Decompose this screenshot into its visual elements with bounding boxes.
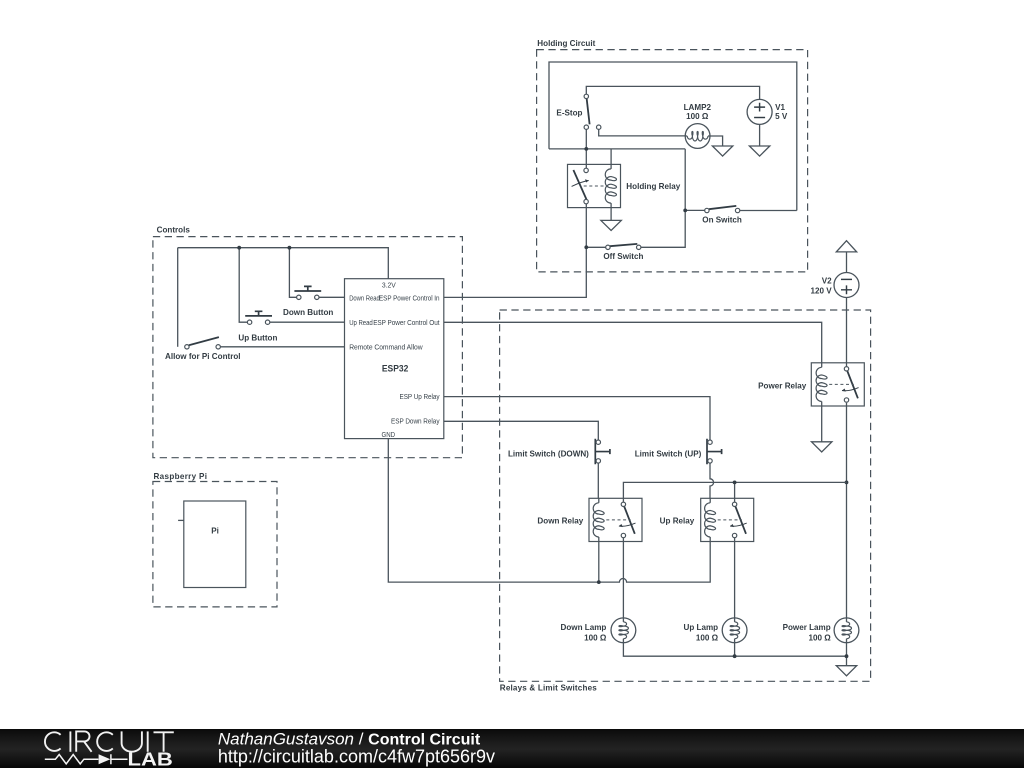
wire arrow to V2 <box>846 252 848 273</box>
wire V2 to power relay switch <box>846 298 848 367</box>
wire off-switch left pin to junction <box>586 246 605 248</box>
wire lamp bottoms rail <box>623 643 846 657</box>
wire ESP Down Relay to limit switch down <box>444 421 599 440</box>
node I (junction) <box>733 654 737 658</box>
pushbutton Limit Switch (UP) <box>635 439 722 465</box>
voltage source V1 (<text x="%s" y="%s" class="lb">5 V</text>) <box>747 99 788 124</box>
svg-text:Down Relay: Down Relay <box>537 517 583 526</box>
svg-text:100 Ω: 100 Ω <box>686 112 709 121</box>
svg-text:120 V: 120 V <box>810 287 832 296</box>
IC U1 ESP32 <box>345 279 444 439</box>
relay K4 (Up Relay) <box>660 498 754 541</box>
svg-text:E-Stop: E-Stop <box>556 108 582 117</box>
wire lamp2 right to ground <box>710 136 723 146</box>
switch Off Switch <box>603 244 643 261</box>
node B (junction) <box>683 209 687 213</box>
svg-text:On Switch: On Switch <box>702 216 742 225</box>
node C (junction) <box>584 245 588 249</box>
node D (junction) <box>237 246 241 250</box>
relay K1 (Holding Relay) <box>568 164 681 207</box>
pushbutton Up Button <box>238 311 277 342</box>
svg-text:3.2V: 3.2V <box>382 281 397 290</box>
relay K3 (Down Relay) <box>537 498 642 541</box>
svg-text:Up Relay: Up Relay <box>660 517 695 526</box>
relay K2 (Power Relay) <box>758 363 864 406</box>
wire node at y149 <box>549 148 685 150</box>
wire power relay coil to ground <box>821 406 823 442</box>
wire junction to up-relay switch <box>734 482 736 501</box>
wire down-relay switch to power net <box>623 482 846 501</box>
wire holding coil to ground <box>610 208 612 221</box>
wire up relay switch to up lamp <box>734 538 736 618</box>
svg-text:Raspberry Pi: Raspberry Pi <box>154 472 208 481</box>
switch Allow for Pi Control <box>165 337 241 361</box>
wire on-switch right pin to loop <box>740 210 797 212</box>
wire down relay coil to gnd rail <box>598 542 600 583</box>
wire relay switch to off-junction <box>585 204 587 248</box>
svg-text:Limit Switch (UP): Limit Switch (UP) <box>635 450 702 459</box>
wire V1 to ground <box>759 125 761 147</box>
svg-text:Limit Switch (DOWN): Limit Switch (DOWN) <box>508 450 589 459</box>
svg-text:V2: V2 <box>822 276 832 285</box>
svg-text:ESP Down Relay: ESP Down Relay <box>391 417 440 426</box>
svg-text:Remote Command Allow: Remote Command Allow <box>349 343 423 352</box>
node J (junction) <box>845 654 849 658</box>
svg-text:LAMP2: LAMP2 <box>684 103 712 112</box>
svg-text:Power Lamp: Power Lamp <box>783 623 831 632</box>
wire power lamp bottom to ground <box>846 643 848 666</box>
svg-text:ESP Up Relay: ESP Up Relay <box>400 392 440 401</box>
node A (junction) <box>584 147 588 151</box>
lamp Power Lamp (100 &#937;) <box>783 618 859 643</box>
svg-text:Power Relay: Power Relay <box>758 381 807 390</box>
wire limit up to up relay coil (hop) <box>710 463 714 498</box>
CircuitLab logo: diode <box>99 754 111 764</box>
svg-text:Holding Relay: Holding Relay <box>626 182 680 191</box>
ground under power relay coil <box>812 442 832 452</box>
lamp Up Lamp (100 &#937;) <box>683 618 747 643</box>
wire to on-switch left pin <box>685 209 705 211</box>
CircuitLab logo: CIRCUIT wordmark (drawn) <box>45 731 174 751</box>
wire right drop to on-switch <box>684 149 686 211</box>
ground under V1 <box>749 146 769 156</box>
wire ESP Up Relay to limit switch up <box>444 397 710 440</box>
svg-text:ESP32: ESP32 <box>382 364 409 375</box>
svg-text:GND: GND <box>382 430 396 439</box>
wire e-stop top to V1 <box>586 86 759 99</box>
footer bar <box>0 729 1024 768</box>
svg-text:ESP Power Control In: ESP Power Control In <box>379 293 440 302</box>
svg-text:Up Read: Up Read <box>349 318 373 327</box>
svg-text:Up Button: Up Button <box>238 333 277 342</box>
svg-text:V1: V1 <box>775 103 785 112</box>
wire power relay switch to power lamp <box>846 403 848 618</box>
wire drop to down button <box>289 248 296 298</box>
lamp LAMP2 (100 &#937;) <box>684 103 712 148</box>
switch On Switch <box>702 206 742 225</box>
wire holding-relay coil drop <box>610 149 612 165</box>
svg-text:Holding Circuit: Holding Circuit <box>537 39 595 48</box>
wire down button to ESP <box>319 296 345 298</box>
section box: Raspberry Pi <box>153 472 277 607</box>
wire holding outer loop <box>549 62 797 211</box>
svg-text:Up Lamp: Up Lamp <box>683 623 718 632</box>
node arrow (net marker) above V2 <box>836 241 856 252</box>
svg-text:100 Ω: 100 Ω <box>808 634 831 643</box>
ground bottom right <box>836 666 856 676</box>
wire up lamp bottom <box>734 643 736 657</box>
lamp Down Lamp (100 &#937;) <box>561 618 636 643</box>
svg-text:100 Ω: 100 Ω <box>584 634 607 643</box>
wire limit down to down relay coil <box>597 463 599 498</box>
wire drop to up button <box>239 248 247 323</box>
svg-text:Down Read: Down Read <box>349 293 380 302</box>
svg-text:5 V: 5 V <box>775 112 788 121</box>
pushbutton Limit Switch (DOWN) <box>508 439 610 465</box>
svg-text:Allow for Pi Control: Allow for Pi Control <box>165 352 241 361</box>
section box: Controls <box>153 226 463 458</box>
node E (junction) <box>288 246 292 250</box>
switch E-Stop (pushbutton NC/NO) <box>556 94 600 129</box>
wire to ESP Power Control In <box>444 247 587 297</box>
wire down relay switch to down lamp <box>622 538 624 618</box>
wire controls top rail to ESP 3.2V <box>178 248 389 279</box>
svg-text:100 Ω: 100 Ω <box>696 634 719 643</box>
node G (junction) <box>733 481 737 485</box>
wire up button to ESP <box>270 321 345 323</box>
node H (junction) <box>597 580 601 584</box>
voltage source V2 (<text x="%s" y="%s" class="lb" text-anchor="end">120 V</text>) <box>810 273 859 298</box>
section box: Relays &amp; Limit Switches <box>500 310 871 693</box>
svg-text:Off Switch: Off Switch <box>603 252 643 261</box>
wire e-stop NO contact to lamp2 <box>599 129 686 136</box>
CircuitLab logo: resistor zigzag <box>45 755 99 764</box>
svg-text:Relays & Limit Switches: Relays & Limit Switches <box>500 684 597 693</box>
svg-text:Down Button: Down Button <box>283 308 333 317</box>
node F (junction) <box>845 481 849 485</box>
svg-text:http://circuitlab.com/c4fw7pt6: http://circuitlab.com/c4fw7pt656r9v <box>218 747 495 767</box>
wire down to off-switch right pin <box>641 210 685 247</box>
svg-text:ESP Power Control Out: ESP Power Control Out <box>373 318 440 327</box>
svg-text:Controls: Controls <box>157 226 191 235</box>
wire e-stop to relay switch <box>585 129 587 168</box>
svg-text:Down Lamp: Down Lamp <box>561 623 607 632</box>
pushbutton Down Button <box>283 286 333 317</box>
svg-text:LAB: LAB <box>128 749 173 768</box>
wire ESP GND rail to relay coils (hop at down-lamp wire) <box>388 439 710 582</box>
section box: Holding Circuit <box>537 39 808 272</box>
wire ESP Power Control Out to power relay coil <box>444 322 822 363</box>
ground under holding relay coil <box>601 220 621 230</box>
wire allow switch to ESP <box>220 346 344 348</box>
svg-text:Pi: Pi <box>211 526 219 535</box>
IC Pi (Raspberry Pi) <box>178 501 246 588</box>
wire rail left drop <box>177 248 179 347</box>
ground under LAMP2 <box>712 146 732 156</box>
